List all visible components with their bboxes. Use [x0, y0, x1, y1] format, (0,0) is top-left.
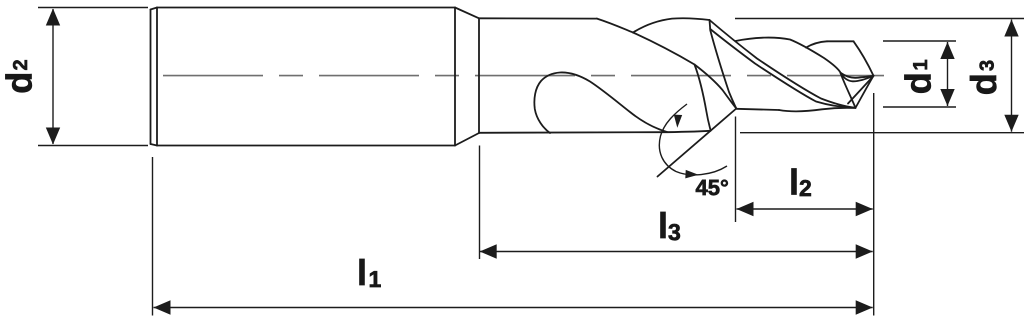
svg-text:d: d: [0, 72, 40, 94]
flute edge C: [710, 30, 736, 109]
svg-text:1: 1: [910, 59, 932, 70]
45 arc arrowhead lower (points right along arc): [685, 170, 698, 179]
notch: [709, 20, 712, 29]
tip flat top: [827, 40, 854, 42]
svg-text:2: 2: [10, 59, 32, 70]
dimension l3: [480, 146, 873, 260]
svg-text:d: d: [898, 72, 939, 94]
lens lower: [841, 73, 874, 82]
lens upper: [841, 73, 874, 78]
dimension l2: [736, 117, 873, 223]
svg-text:l: l: [789, 162, 799, 203]
tip top rising arc: [806, 41, 827, 47]
45 degree annotation arc: [659, 104, 727, 175]
tip bottom silhouette arc: [779, 108, 856, 112]
descending cutting edge D: [736, 38, 841, 73]
svg-text:l: l: [357, 252, 367, 293]
flute edge B: [695, 65, 737, 109]
45 deg chamfer line (through heel to corner): [658, 109, 737, 177]
dimension d2: [0, 8, 148, 146]
45 arc arrowhead upper (points down toward flute line): [673, 115, 682, 128]
dimension l1: [153, 93, 874, 316]
tip steep upper edge F: [854, 41, 874, 76]
svg-text:45°: 45°: [696, 175, 729, 200]
tip edge E: [841, 73, 856, 108]
flute edge A (hump descent, long diagonal, hook to heel): [597, 19, 711, 130]
tip bottom cutting edge T1: [856, 76, 874, 108]
svg-text:1: 1: [369, 266, 382, 292]
body bottom edge (continuous to heel): [479, 131, 711, 133]
dimension d1: [883, 41, 956, 107]
taper (shank to body): [455, 8, 479, 146]
land band upper edge: [710, 20, 854, 108]
svg-text:d: d: [963, 73, 1004, 95]
svg-text:2: 2: [799, 175, 812, 201]
tip chisel edge T2: [848, 77, 873, 104]
land band lower edge: [710, 29, 853, 108]
body top edge: [479, 17, 597, 19]
centerline: [163, 75, 884, 77]
svg-text:3: 3: [668, 219, 681, 245]
tip lower horizontal edge: [736, 109, 779, 110]
svg-text:3: 3: [977, 60, 999, 71]
svg-text:l: l: [658, 205, 668, 246]
lower flute teardrop: [534, 72, 667, 133]
dimension d3: [735, 19, 1024, 133]
land 2 silhouette rise: [633, 18, 710, 32]
shank outline: [151, 8, 456, 146]
